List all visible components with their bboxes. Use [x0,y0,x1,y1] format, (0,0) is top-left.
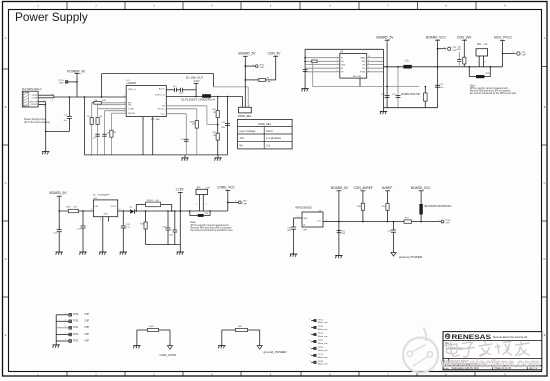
svg-text:CHP: CHP [84,334,89,336]
svg-text:5V: 5V [239,144,243,148]
svg-text:Note:: Note: [470,84,476,87]
svg-text:BOARD_5V: BOARD_5V [331,186,349,190]
svg-text:NOBD100LT00: NOBD100LT00 [401,93,421,96]
wire CN1 pin2 [38,97,54,99]
svg-text:1: 1 [65,339,66,341]
power flag POWER_IN [75,72,80,74]
wire main to MCU_PVCC [464,66,502,68]
wire U4 exp pad down [359,78,361,86]
wire C20 to gnd [304,72,306,89]
svg-text:CHP: CHP [457,49,462,51]
resistor R58 con_avref [362,193,364,222]
svg-text:TP12: TP12 [318,319,324,321]
svg-text:JP4 is used for current measur: JP4 is used for current measurement. [191,224,230,227]
capacitor C21 [385,95,390,97]
wire to PWR_SEL pin (gray) [214,86,249,88]
svg-text:LM2596S: LM2596S [127,83,137,85]
wire U6 gnd pin [294,217,302,219]
resistor R8 column [97,105,99,155]
svg-text:2: 2 [485,62,486,64]
svg-text:12V: 12V [239,136,244,140]
svg-text:BOOT: BOOT [159,88,165,90]
ground C26 [56,251,63,253]
power flag BOARD_5V a [243,55,248,57]
svg-text:OUTER: OUTER [30,104,38,106]
power flag BOARD_5V d [337,190,342,192]
svg-text:CON_3V0: CON_3V0 [457,35,472,39]
capacitor C49 [291,226,296,228]
svg-text:2: 2 [249,105,250,107]
wire VOUT line [166,96,202,98]
svg-text:1: 1 [196,204,197,206]
border zone ticks left [3,68,9,70]
resistor R43 block [136,330,138,346]
wire VIN over-the-top [101,74,103,97]
svg-text:TP18: TP18 [73,314,79,316]
svg-text:PWR_SEL: PWR_SEL [258,122,271,126]
capacitor C22 [396,95,401,97]
svg-text:VOUT: VOUT [111,206,117,208]
wire BOARD_5V down to jumper [244,59,246,108]
test point TP11 [245,65,255,67]
svg-text:SS/TRK: SS/TRK [128,113,136,115]
ground TP column [53,344,60,346]
wire JP4 pins [198,195,200,212]
wire input branch down [83,97,85,155]
svg-text:1: 1 [65,333,66,335]
border zone ticks top [66,2,68,9]
svg-text:TP19: TP19 [73,334,79,336]
svg-text:3: 3 [298,216,299,218]
capacitor C33 column [167,211,169,228]
ferrite bead FB2 BLM18PG [420,193,422,222]
wire CN1 shell down [45,102,47,152]
svg-text:POND: POND [360,72,366,74]
wire BOARD_VCC down [437,42,439,66]
test point TP3 [228,201,238,203]
svg-text:CON_AVSS: CON_AVSS [160,353,177,357]
svg-text:GND: GND [303,218,308,220]
svg-text:CHP: CHP [84,327,89,329]
capacitor C13 120u [227,97,229,155]
svg-text:1: 1 [309,340,310,342]
ground R43 left [133,345,140,347]
svg-text:1: 1 [65,320,66,322]
svg-text:Remove R54 and short JP4 to me: Remove R54 and short JP4 to measure [191,227,233,230]
svg-text:100: 100 [192,124,195,126]
svg-text:Power Supply Input: Power Supply Input [24,117,46,121]
table PWR_SEL [238,119,293,148]
jumper J6 PWR_SEL header [238,107,251,113]
svg-text:C: C [5,182,7,185]
capacitor C28 4.7u [122,211,124,226]
svg-text:Mode_trim: Mode_trim [318,328,328,331]
svg-text:CHP: CHP [445,223,450,225]
wire main after diode [136,210,180,212]
wire U2 pin BST [94,102,126,104]
capacitor C27 column [82,211,84,226]
svg-text:JP5 is used for current measur: JP5 is used for current measurement. [470,87,509,90]
svg-text:BOARD_VCC: BOARD_VCC [426,35,447,39]
resistor R9 column [110,113,112,155]
svg-text:Mode_trim: Mode_trim [318,349,328,352]
wire TP10 to POWER_IN net [68,81,77,83]
svg-text:1: 1 [309,361,310,363]
svg-text:ground_POWER: ground_POWER [264,350,288,354]
resistor R52 bypass loop [135,204,137,211]
svg-text:Input Voltage: Input Voltage [239,129,256,133]
svg-text:TP10: TP10 [58,80,64,82]
wire CON_3V0 down [463,42,465,66]
wire 1.15V down [179,195,181,245]
wire POWER_IN down [76,76,78,97]
capacitor C34 column [174,211,176,230]
svg-text:VIN: VIN [95,206,99,208]
svg-text:VIN(+.4): VIN(+.4) [128,89,136,91]
svg-text:Mode_trim: Mode_trim [318,321,328,324]
svg-text:PWR_SEL: PWR_SEL [238,114,252,118]
diode D2 [130,209,134,213]
inductor L2 SLF12565T [202,94,211,98]
svg-text:.01u: .01u [440,87,444,89]
svg-text:2: 2 [206,204,207,206]
logo RENESAS [445,334,450,339]
resistor R11 fb lower [216,133,219,140]
svg-text:CHP: CHP [303,230,308,232]
svg-text:VND: VND [362,61,367,63]
ground CN1 [42,151,49,153]
svg-text:TP22: TP22 [73,340,79,342]
resistor R54 loop [189,211,191,216]
wire U2 pin COMP [98,108,127,110]
svg-text:TP13: TP13 [318,326,324,328]
ground U4 rail [383,108,385,112]
ground C49 [290,253,297,255]
svg-text:R0603: R0603 [147,200,154,202]
svg-text:1.2u: 1.2u [404,61,409,63]
svg-text:CHP: CHP [59,83,64,85]
svg-text:TP15: TP15 [318,340,324,342]
svg-text:the current consumed by the MC: the current consumed by the MCU's core. [191,229,234,232]
svg-text:CON_5V: CON_5V [268,52,282,56]
svg-text:120u: 120u [221,127,225,129]
svg-text:1: 1 [240,105,241,107]
svg-text:TP16: TP16 [318,347,324,349]
svg-text:4.7u: 4.7u [126,227,130,229]
wire output to jumper [242,97,244,108]
svg-text:CORE_VCC: CORE_VCC [217,186,235,190]
svg-text:Renesas Electronics America Lt: Renesas Electronics America Ltd. [493,336,528,339]
ground rail gnd1 [184,155,186,158]
svg-text:1: 1 [90,209,91,211]
svg-text:1: 1 [65,326,66,328]
svg-text:Mode_trim: Mode_trim [318,342,328,345]
svg-text:1: 1 [65,313,66,315]
resistor R50 [68,209,78,212]
wire U5 gnd pin [102,217,104,252]
wire JP5 pins down [478,56,480,67]
svg-text:C34: C34 [169,234,172,236]
wire C6 to ground rail [46,130,70,132]
resistor R6 1003 [94,101,101,104]
wire U2 pin RT [111,112,126,114]
svg-text:CHP: CHP [84,340,89,342]
svg-text:VOUT(+.4): VOUT(+.4) [155,95,165,97]
ground rail gnd2 [217,155,219,158]
wire U4 right bus [383,49,385,107]
svg-text:MCU_PVCC: MCU_PVCC [494,35,513,39]
resistor R4 con5v [245,79,258,81]
svg-text:CHP: CHP [483,44,488,46]
watermark circle logo [403,328,438,373]
svg-text:D: D [5,258,7,261]
capacitor C11 [184,138,189,140]
svg-text:VCC: VCC [161,113,166,115]
wire U2 EXP_PAD pins [142,117,144,155]
capacitor C40 [458,52,460,60]
wire U4 top rail [305,48,383,50]
svg-text:AVREF: AVREF [382,186,392,190]
power flag MCU_PVCC [500,40,505,42]
svg-text:the current consumed by the MC: the current consumed by the MCU's port p… [470,92,518,95]
test point TP4 [438,48,447,50]
svg-text:1: 1 [309,354,310,356]
svg-text:Power Supply: Power Supply [15,10,88,24]
power flag CORE_VCC [225,189,230,191]
svg-text:1: 1 [309,326,310,328]
wire PGOOD pull [166,108,197,110]
rail row2 [146,244,181,246]
svg-text:POWER_IN: POWER_IN [67,69,85,73]
svg-text:RENESAS: RENESAS [452,334,492,341]
wire CORE_VCC down [227,193,229,211]
wire U4 right pins [367,57,384,59]
watermark chinese characters [445,341,530,357]
wire row2 main [59,210,93,212]
svg-text:(2V or 5V centre positive): (2V or 5V centre positive) [24,121,50,124]
wire CN1 pin join [53,95,55,98]
ground U4 input [301,88,308,90]
svg-text:CON_AVREF: CON_AVREF [354,186,373,190]
wire BOARD_5V b down [386,42,388,107]
capacitor C53 [393,222,395,230]
resistor R7 column [91,103,93,155]
ground C28 [120,251,127,253]
svg-text:1: 1 [309,333,310,335]
svg-text:TP20: TP20 [73,321,79,323]
svg-text:Note:: Note: [191,221,197,224]
wire BOARD_5V c down [58,198,60,229]
resistor R59 avref [387,193,389,222]
ground BOARD_5V d [335,255,342,257]
resistor R10 fb upper [217,97,219,155]
svg-text:BOARD_5V: BOARD_5V [376,35,394,39]
wire FB sense [166,105,207,107]
svg-text:D: D [544,258,546,261]
wire U2 pin SS [105,110,127,112]
resistor R47 block [221,330,223,346]
power flag CON_5V [273,55,278,57]
svg-text:KLD-SMT2-0202-A: KLD-SMT2-0202-A [22,88,42,91]
power flag BOARD_VCC a [435,39,440,41]
svg-text:C: C [544,182,546,185]
resistor R57 series [404,220,412,223]
svg-text:PGOOD: PGOOD [158,109,166,111]
title block doc row [448,359,450,366]
svg-text:261: 261 [213,112,216,114]
svg-text:1: 1 [477,62,478,64]
svg-text:ground_POWER: ground_POWER [399,255,423,259]
svg-text:100n: 100n [179,92,183,94]
wire U5 out [118,210,130,212]
svg-text:4.02V: 4.02V [193,80,200,83]
resistor R12 pgood [195,121,198,129]
svg-text:3: 3 [244,105,245,107]
ground arrow CON_AVSS [167,346,172,350]
ground R47 left [218,345,225,347]
svg-text:TP50: TP50 [445,220,451,222]
border zone ticks right [542,66,547,68]
diode D3 column [424,87,426,108]
wire rail to gnd [179,245,181,252]
title block frame [443,332,542,370]
wire cap column x398 [397,67,399,108]
svg-text:CNTR: CNTR [32,98,38,100]
ground rail bottom [84,154,227,156]
svg-text:CHP: CHP [522,55,527,57]
ground arrow ground_POWER [391,253,396,257]
wire U6 out [323,221,339,223]
power flag BOARD_5V c [57,195,62,197]
power flag BOARD_VCC b [419,190,424,192]
svg-text:BOARD_5V: BOARD_5V [49,191,67,195]
svg-text:GND: GND [103,214,108,216]
svg-text:TP14: TP14 [318,333,324,335]
svg-text:CHP: CHP [84,314,89,316]
svg-text:www.elecfans.com: www.elecfans.com [440,358,540,370]
svg-text:1.15V: 1.15V [175,187,184,191]
wire U2 pin VIN2 [98,104,127,106]
svg-text:5V_SW_OUT: 5V_SW_OUT [186,76,204,80]
wire CN1 pin4 [38,103,46,105]
svg-text:BOARD_VCC: BOARD_VCC [411,186,432,190]
wire after R57 [412,221,442,223]
ground C27 [79,251,86,253]
capacitor C51 [337,230,342,232]
svg-text:TP11: TP11 [259,64,265,66]
svg-text:Mode_trim: Mode_trim [318,356,328,359]
svg-text:131: 131 [213,135,216,137]
svg-text:U90090APF: U90090APF [98,194,111,197]
power flag BOARD_5V b [385,39,390,41]
svg-text:2: 2 [326,220,327,222]
resistor R30 [312,60,317,63]
wire CN1 pin1 [38,94,54,96]
svg-text:0R: 0R [74,207,77,209]
capacitor C26 [57,229,62,231]
power flag CON_AVREF [361,190,366,192]
wire CON_5V down [275,59,277,80]
resistor R27 [463,57,466,64]
power flag 1.15V [178,191,183,193]
svg-text:Remove R28 and short JP5 to me: Remove R28 and short JP5 to measure [470,90,512,93]
svg-text:2-3: 2-3 [266,144,270,148]
wire CN1 pin3 [38,101,46,103]
wire BOARD_5V d down [338,193,340,256]
wire after inductor [211,96,243,98]
ground U5 [99,251,106,253]
wire main input [54,96,126,98]
power flag AVREF [385,190,390,192]
svg-text:CHP: CHP [266,82,271,84]
svg-text:CHP: CHP [84,321,89,323]
power flag 5V_SW_OUT [194,82,199,84]
ground arrow R47 right [257,346,262,350]
power flag CON_3V0 [462,39,467,41]
svg-text:TP18: TP18 [318,361,324,363]
svg-text:TP17: TP17 [318,354,324,356]
capacitor C8 column [104,111,106,155]
border zone ticks bottom [66,372,68,376]
resistor R28 loop [468,67,470,77]
svg-text:Mode_trim: Mode_trim [318,335,328,338]
svg-text:TP21: TP21 [73,327,79,329]
wire row2 main right [180,210,228,212]
svg-text:1: 1 [309,347,310,349]
wire VCC cap branch [166,113,186,115]
svg-text:1: 1 [309,319,310,321]
svg-text:BLM18PG300SN1D: BLM18PG300SN1D [425,205,452,208]
svg-text:EXP_PAD: EXP_PAD [353,75,362,78]
resistor R61 column [145,211,147,222]
svg-text:SLF12565T-100M2R5-H: SLF12565T-100M2R5-H [181,98,215,101]
svg-text:CHP: CHP [259,67,264,69]
svg-text:RSKRX610: RSKRX610 [448,346,464,350]
wire row3 main [339,221,404,223]
junction dots U4 left [304,57,306,59]
test points TP18-TP22 column [55,315,57,345]
ground rail row2 [177,251,184,253]
wire main 3V rail [384,66,404,68]
ground rail U4 area [384,107,438,109]
svg-text:Mode_trim: Mode_trim [318,363,328,366]
svg-text:1-2 (default): 1-2 (default) [266,136,281,140]
svg-text:2: 2 [100,219,101,221]
test point TP6 [503,53,516,55]
svg-text:GND: GND [341,64,346,66]
wire U5 adj stub [107,217,109,222]
capacitor C20 [303,69,308,71]
svg-text:COMP: COMP [128,108,134,110]
svg-text:CHP: CHP [243,204,248,206]
svg-text:REF3025AIDBZ: REF3025AIDBZ [295,207,312,210]
capacitor C12 boot [166,89,174,91]
svg-text:VADD: VADD [360,56,366,59]
capacitor C23 column [437,67,439,108]
capacitor C6 10u [68,97,70,116]
svg-text:Short: Short [266,129,273,133]
wire MCU_PVCC down [502,43,504,67]
capacitor C9 [95,133,100,135]
svg-text:BOARD_5V: BOARD_5V [238,52,256,56]
wire 5V_SW_OUT down [195,85,197,96]
inductor L3 1.2u [403,65,411,69]
svg-text:SWTCH: SWTCH [30,102,38,104]
